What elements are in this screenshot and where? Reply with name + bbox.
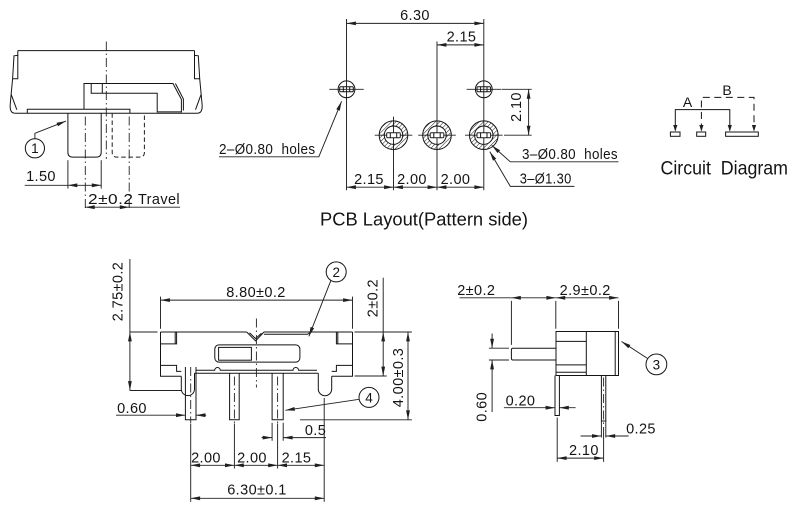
- svg-text:Circuit Diagram: Circuit Diagram: [661, 159, 789, 180]
- svg-text:2: 2: [332, 265, 340, 280]
- leader 2-Ø0.80 holes: [219, 101, 342, 158]
- svg-text:8.80±0.2: 8.80±0.2: [226, 285, 286, 301]
- svg-text:2±0.2: 2±0.2: [457, 283, 495, 299]
- svg-text:2.15: 2.15: [354, 172, 384, 188]
- top view internal slider contour: [84, 84, 183, 113]
- dimension 2±0.2 knob: [457, 283, 618, 345]
- slider knob post dashed (travel position): [112, 113, 144, 157]
- svg-text:3–Ø0.80 holes: 3–Ø0.80 holes: [522, 147, 618, 163]
- side view slider knob: [511, 348, 556, 360]
- svg-text:3: 3: [653, 357, 661, 372]
- svg-text:2–Ø0.80 holes: 2–Ø0.80 holes: [219, 142, 316, 158]
- dimension 0.20: [504, 394, 576, 410]
- svg-text:A: A: [683, 94, 693, 110]
- front view left top step: [161, 332, 177, 344]
- svg-text:2.75±0.2: 2.75±0.2: [111, 262, 127, 322]
- hole H3 large bottom-left: [375, 121, 413, 150]
- top view body bottom edge: [15, 112, 198, 114]
- svg-text:2.10: 2.10: [509, 92, 525, 122]
- PCB layout column line c2: [393, 117, 395, 191]
- svg-text:PCB Layout(Pattern side): PCB Layout(Pattern side): [320, 209, 528, 230]
- front view right bent leg: [318, 373, 331, 395]
- front view main centerline: [255, 319, 257, 388]
- top view left side wall: [10, 51, 18, 114]
- hole H2 small top-right: [467, 81, 501, 98]
- svg-text:1.50: 1.50: [26, 169, 56, 185]
- dimension 2±0.2 height: [355, 278, 412, 376]
- top view bottom plate edge: [27, 109, 130, 113]
- terminal pin right: [272, 373, 283, 420]
- side view pin right: [601, 376, 605, 422]
- extension line middle pin: [233, 424, 235, 469]
- front view body top edge: [161, 332, 353, 341]
- hole H1 small top-left: [329, 81, 363, 98]
- PCB layout column line c1: [346, 19, 348, 190]
- balloon 3: [622, 342, 667, 375]
- svg-text:2.15: 2.15: [282, 450, 312, 466]
- balloon 1: [25, 121, 66, 158]
- extension line right pin: [277, 424, 279, 469]
- pin centerline left: [190, 367, 192, 423]
- circuit terminal pad 2: [697, 132, 706, 136]
- top view left corner gusset: [11, 95, 16, 110]
- svg-text:2.00: 2.00: [191, 450, 221, 466]
- balloon 4: [285, 387, 379, 410]
- svg-text:0.5: 0.5: [305, 423, 326, 439]
- extension line left pin: [190, 424, 192, 502]
- svg-text:2.10: 2.10: [569, 443, 599, 459]
- svg-text:2.9±0.2: 2.9±0.2: [560, 283, 611, 299]
- svg-text:2±0.2: 2±0.2: [88, 192, 134, 208]
- svg-text:2±0.2: 2±0.2: [366, 279, 382, 317]
- front view left bent leg: [181, 373, 194, 395]
- leader 3-Ø0.80 holes: [492, 145, 619, 162]
- svg-text:1: 1: [31, 141, 39, 156]
- dimension 0.5: [262, 423, 327, 441]
- dimension 0.25: [581, 421, 656, 438]
- knob centerline right: [128, 117, 130, 211]
- front view right bottom step: [332, 365, 353, 371]
- svg-text:B: B: [722, 82, 731, 98]
- dimension 6.30 top: [347, 8, 484, 24]
- svg-text:2.00: 2.00: [237, 450, 267, 466]
- terminal pin left: [185, 367, 196, 420]
- dimension 2.10: [557, 418, 603, 462]
- front view body left edge: [161, 332, 182, 376]
- side view right pin centerline: [603, 378, 605, 426]
- dimension 6.30±0.1: [191, 482, 325, 498]
- top view right corner gusset: [196, 95, 202, 110]
- svg-text:0.20: 0.20: [506, 394, 536, 410]
- svg-text:2.00: 2.00: [441, 172, 471, 188]
- circuit path B dashed: [699, 97, 756, 131]
- dimension 1.50: [25, 160, 102, 188]
- top view right side wall: [195, 51, 203, 114]
- dimension 0.60 front: [116, 401, 206, 417]
- hole H4 large bottom-middle: [418, 121, 456, 150]
- dimension 2.10 vertical: [502, 89, 532, 135]
- front view body right edge: [332, 332, 353, 376]
- hole H5 large bottom-right: [465, 121, 503, 150]
- svg-text:4: 4: [365, 390, 373, 405]
- terminal pin middle: [230, 373, 240, 420]
- PCB layout column line c4: [483, 19, 485, 190]
- front view slider window: [215, 345, 300, 362]
- circuit path A solid: [673, 110, 732, 132]
- pin centerline middle: [233, 377, 235, 424]
- front view base plate upper edge with bumps: [196, 368, 317, 371]
- svg-text:0.25: 0.25: [626, 422, 656, 438]
- dimension row 2.00 2.00 2.15: [191, 450, 325, 466]
- front view base plate lower edge: [195, 372, 319, 374]
- top view body top edge: [18, 50, 195, 52]
- side view internal vertical: [585, 332, 587, 376]
- slider knob post solid: [68, 113, 101, 157]
- side view inner right wall: [614, 332, 616, 376]
- dimension 4.00±0.3: [300, 332, 412, 420]
- leader 3-Ø1.30: [490, 152, 575, 188]
- svg-text:0.60: 0.60: [117, 401, 147, 417]
- dimension 0.60 side: [475, 334, 510, 422]
- side view pin left: [555, 376, 559, 416]
- svg-text:6.30: 6.30: [400, 8, 430, 24]
- dimension 2.9±0.2: [556, 283, 619, 299]
- circuit terminal pad 3 (common): [726, 132, 759, 136]
- dimension 2.15 top: [437, 30, 484, 46]
- side view body outline: [556, 332, 619, 376]
- svg-text:Travel: Travel: [138, 192, 180, 208]
- dimension row 2.15 2.00 2.00: [347, 172, 484, 188]
- svg-text:6.30±0.1: 6.30±0.1: [227, 482, 287, 498]
- svg-text:2.00: 2.00: [397, 172, 427, 188]
- PCB layout column line c3: [436, 42, 438, 191]
- top view vertical centerline: [105, 42, 107, 160]
- side view internal horizontals: [556, 341, 586, 372]
- dimension 2±0.2 Travel: [85, 192, 180, 208]
- dimension 2.75±0.2: [111, 259, 182, 391]
- front view right top step: [336, 332, 352, 344]
- svg-text:2.15: 2.15: [447, 30, 477, 46]
- extension line right leg: [323, 398, 325, 502]
- dimension 8.80±0.2: [161, 285, 353, 329]
- front view left bottom step: [161, 365, 182, 371]
- pin centerline right: [277, 377, 279, 424]
- svg-text:0.60: 0.60: [475, 392, 491, 422]
- balloon 2: [309, 262, 346, 336]
- knob centerline left: [84, 117, 86, 211]
- svg-text:4.00±0.3: 4.00±0.3: [391, 348, 407, 408]
- circuit terminal pad 1: [670, 132, 680, 136]
- svg-text:3–Ø1.30: 3–Ø1.30: [520, 171, 572, 187]
